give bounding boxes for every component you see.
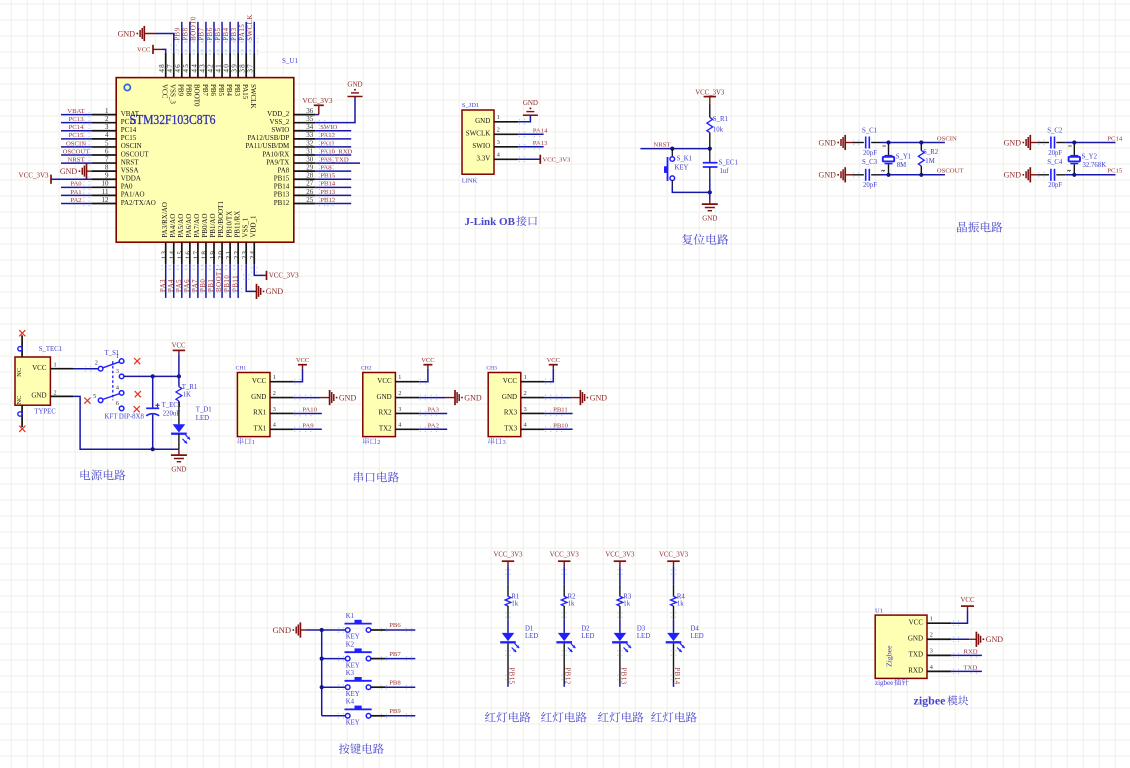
svg-text:VCC: VCC bbox=[547, 357, 560, 364]
svg-text:PC15: PC15 bbox=[1107, 168, 1123, 175]
svg-text:OSCIN: OSCIN bbox=[937, 135, 957, 142]
svg-text:TYPEC: TYPEC bbox=[34, 408, 56, 415]
svg-text:PB9: PB9 bbox=[389, 708, 401, 715]
svg-text:4: 4 bbox=[930, 664, 933, 671]
svg-text:PB15: PB15 bbox=[508, 667, 515, 685]
svg-text:16: 16 bbox=[185, 250, 193, 260]
svg-text:TXD: TXD bbox=[909, 651, 923, 659]
svg-text:PB2/BOOT1: PB2/BOOT1 bbox=[217, 201, 225, 238]
svg-text:1K: 1K bbox=[183, 392, 191, 399]
svg-text:PA0: PA0 bbox=[121, 183, 133, 191]
svg-text:PA10_RXD: PA10_RXD bbox=[320, 148, 352, 155]
svg-text:3: 3 bbox=[497, 139, 500, 146]
svg-text:4: 4 bbox=[497, 152, 500, 159]
svg-text:GND: GND bbox=[1004, 138, 1022, 147]
svg-text:PB13: PB13 bbox=[274, 191, 290, 199]
svg-text:PB11: PB11 bbox=[553, 406, 568, 413]
svg-text:1: 1 bbox=[273, 374, 276, 381]
svg-text:PB5: PB5 bbox=[217, 84, 225, 97]
svg-text:PB14: PB14 bbox=[320, 181, 336, 188]
svg-text:PC13: PC13 bbox=[69, 116, 85, 123]
svg-text:4: 4 bbox=[116, 385, 119, 392]
svg-text:GND: GND bbox=[31, 392, 46, 400]
svg-text:1k: 1k bbox=[511, 601, 518, 608]
svg-text:VCC: VCC bbox=[252, 377, 267, 385]
svg-text:VCC: VCC bbox=[503, 377, 518, 385]
svg-text:PA10: PA10 bbox=[302, 406, 317, 413]
svg-text:3: 3 bbox=[930, 648, 933, 655]
svg-text:LED: LED bbox=[196, 415, 209, 422]
svg-text:22: 22 bbox=[233, 250, 241, 260]
svg-text:KEY: KEY bbox=[346, 691, 360, 698]
svg-text:1k: 1k bbox=[677, 601, 684, 608]
svg-text:PB7: PB7 bbox=[389, 651, 401, 658]
svg-text:zigbee: zigbee bbox=[914, 694, 947, 708]
svg-text:GND: GND bbox=[171, 466, 186, 474]
svg-text:RX1: RX1 bbox=[253, 409, 267, 417]
svg-text:K3: K3 bbox=[346, 670, 355, 677]
svg-text:13: 13 bbox=[161, 250, 169, 260]
svg-text:PA4/AO: PA4/AO bbox=[169, 214, 177, 238]
svg-text:1: 1 bbox=[54, 362, 57, 369]
svg-text:GND: GND bbox=[251, 393, 266, 401]
svg-text:VCC_3V3: VCC_3V3 bbox=[269, 272, 299, 280]
svg-text:PC13: PC13 bbox=[121, 118, 137, 126]
svg-text:zigbee: zigbee bbox=[875, 679, 893, 687]
svg-text:KEY: KEY bbox=[346, 634, 360, 641]
svg-text:1: 1 bbox=[497, 114, 500, 121]
svg-text:2: 2 bbox=[54, 389, 57, 396]
svg-text:PA7: PA7 bbox=[192, 279, 199, 292]
svg-text:PA2: PA2 bbox=[70, 197, 81, 204]
svg-text:20: 20 bbox=[217, 250, 225, 260]
svg-text:GND: GND bbox=[502, 393, 517, 401]
svg-text:VCC_3V3: VCC_3V3 bbox=[605, 552, 635, 559]
svg-text:GND: GND bbox=[986, 635, 1004, 644]
svg-text:BOOT0: BOOT0 bbox=[193, 84, 201, 107]
svg-text:OSCOUT: OSCOUT bbox=[63, 148, 90, 155]
svg-text:220uF: 220uF bbox=[163, 411, 181, 418]
svg-text:SWCLK: SWCLK bbox=[249, 84, 257, 108]
svg-text:GND: GND bbox=[464, 393, 482, 402]
svg-text:PA8: PA8 bbox=[320, 165, 332, 172]
svg-text:NRST: NRST bbox=[67, 156, 84, 163]
svg-text:S_R1: S_R1 bbox=[713, 116, 728, 123]
svg-text:VCC: VCC bbox=[377, 377, 392, 385]
svg-text:VDDA: VDDA bbox=[121, 175, 141, 183]
svg-text:PA12/USB/DP: PA12/USB/DP bbox=[248, 134, 290, 142]
svg-text:SWIO: SWIO bbox=[472, 142, 490, 150]
svg-text:Zigbee: Zigbee bbox=[885, 645, 894, 667]
svg-text:VSSA: VSSA bbox=[121, 166, 139, 174]
svg-text:20pF: 20pF bbox=[1048, 182, 1062, 189]
svg-text:VCC_3V3: VCC_3V3 bbox=[550, 552, 580, 559]
svg-text:PB7: PB7 bbox=[201, 84, 209, 97]
svg-text:2: 2 bbox=[497, 127, 500, 134]
svg-text:VCC_3V3: VCC_3V3 bbox=[19, 172, 49, 180]
svg-text:PB13: PB13 bbox=[619, 667, 626, 685]
svg-text:J-Link OB: J-Link OB bbox=[465, 216, 516, 228]
svg-text:VCC: VCC bbox=[421, 357, 434, 364]
svg-text:GND: GND bbox=[819, 171, 837, 180]
svg-text:2: 2 bbox=[398, 390, 401, 397]
svg-text:RXD: RXD bbox=[964, 649, 978, 656]
svg-text:4: 4 bbox=[398, 422, 401, 429]
svg-text:PC14: PC14 bbox=[121, 126, 137, 134]
svg-text:2: 2 bbox=[930, 632, 933, 639]
svg-text:R2: R2 bbox=[568, 593, 577, 600]
svg-text:S_C2: S_C2 bbox=[1047, 127, 1063, 134]
svg-text:BOOT0: BOOT0 bbox=[191, 16, 198, 41]
svg-text:K4: K4 bbox=[346, 699, 355, 706]
svg-text:PC14: PC14 bbox=[1107, 135, 1123, 142]
svg-text:OSCOUT: OSCOUT bbox=[121, 150, 150, 158]
svg-text:VCC: VCC bbox=[296, 357, 309, 364]
svg-text:1: 1 bbox=[398, 374, 401, 381]
svg-text:4: 4 bbox=[273, 422, 276, 429]
svg-text:PA9/TX: PA9/TX bbox=[266, 158, 289, 166]
svg-text:LED: LED bbox=[691, 633, 704, 640]
svg-text:R4: R4 bbox=[677, 593, 686, 600]
svg-text:T_D1: T_D1 bbox=[196, 407, 212, 414]
svg-text:PA1: PA1 bbox=[70, 189, 81, 196]
svg-text:PA15: PA15 bbox=[241, 84, 249, 100]
svg-text:K2: K2 bbox=[346, 641, 355, 648]
svg-text:23: 23 bbox=[241, 250, 249, 260]
svg-text:PA1/AO: PA1/AO bbox=[121, 191, 145, 199]
svg-text:KEY: KEY bbox=[675, 165, 689, 172]
svg-text:VCC: VCC bbox=[161, 84, 169, 99]
svg-text:PA14: PA14 bbox=[533, 127, 548, 134]
svg-text:PB10: PB10 bbox=[553, 422, 569, 429]
svg-text:PA8: PA8 bbox=[277, 166, 289, 174]
svg-text:VCC_3V3: VCC_3V3 bbox=[303, 97, 333, 105]
svg-text:PA4: PA4 bbox=[168, 279, 175, 292]
svg-text:20pF: 20pF bbox=[863, 150, 877, 157]
svg-text:S_Y1: S_Y1 bbox=[896, 154, 912, 161]
svg-text:8M: 8M bbox=[897, 162, 906, 169]
svg-text:PA11: PA11 bbox=[320, 140, 334, 147]
svg-text:3: 3 bbox=[503, 439, 506, 446]
svg-text:VCC: VCC bbox=[172, 343, 186, 350]
svg-text:NC: NC bbox=[16, 395, 23, 404]
svg-text:T_R1: T_R1 bbox=[182, 384, 197, 391]
svg-text:RXD: RXD bbox=[908, 667, 923, 675]
svg-text:VSS_1: VSS_1 bbox=[241, 217, 249, 237]
svg-text:17: 17 bbox=[193, 250, 201, 260]
svg-text:PA3: PA3 bbox=[160, 279, 167, 292]
svg-text:SWIO: SWIO bbox=[271, 126, 289, 134]
svg-text:PB12: PB12 bbox=[274, 199, 290, 207]
svg-text:3: 3 bbox=[398, 406, 401, 413]
svg-text:PB3: PB3 bbox=[233, 84, 241, 97]
svg-text:2: 2 bbox=[524, 390, 527, 397]
svg-text:GND: GND bbox=[272, 625, 291, 635]
svg-text:PB1/AO: PB1/AO bbox=[209, 213, 217, 237]
svg-text:U1: U1 bbox=[875, 607, 883, 614]
svg-text:VDD_1: VDD_1 bbox=[249, 215, 257, 238]
svg-text:NRST: NRST bbox=[121, 158, 140, 166]
svg-text:PB11/RX: PB11/RX bbox=[233, 211, 241, 238]
svg-text:PC15: PC15 bbox=[121, 134, 137, 142]
svg-text:GND: GND bbox=[908, 635, 923, 643]
svg-text:1: 1 bbox=[930, 616, 933, 623]
svg-text:PA6: PA6 bbox=[184, 279, 191, 292]
svg-text:PB10/TX: PB10/TX bbox=[225, 211, 233, 238]
svg-text:CH1: CH1 bbox=[236, 365, 247, 371]
svg-text:VCC_3V3: VCC_3V3 bbox=[695, 89, 725, 96]
svg-text:S_K1: S_K1 bbox=[677, 156, 693, 163]
svg-text:TX2: TX2 bbox=[379, 425, 392, 433]
svg-text:BOOT1: BOOT1 bbox=[216, 267, 223, 292]
svg-text:PA6/AO: PA6/AO bbox=[185, 214, 193, 238]
svg-text:D1: D1 bbox=[525, 626, 533, 633]
svg-text:CH3: CH3 bbox=[486, 365, 497, 371]
svg-text:S_EC1: S_EC1 bbox=[719, 159, 738, 166]
svg-text:10k: 10k bbox=[713, 127, 724, 134]
svg-text:PA3: PA3 bbox=[428, 406, 440, 413]
svg-text:5: 5 bbox=[93, 393, 96, 400]
svg-text:GND: GND bbox=[702, 215, 717, 223]
svg-text:VCC: VCC bbox=[137, 47, 150, 54]
svg-text:PA12: PA12 bbox=[320, 132, 335, 139]
svg-text:1uf: 1uf bbox=[720, 168, 730, 175]
svg-text:24: 24 bbox=[249, 250, 257, 260]
svg-text:GND: GND bbox=[347, 81, 362, 89]
svg-text:RX2: RX2 bbox=[378, 409, 392, 417]
svg-text:PB9: PB9 bbox=[177, 84, 185, 97]
svg-text:15: 15 bbox=[177, 250, 185, 260]
svg-text:NRST: NRST bbox=[653, 141, 670, 148]
svg-text:TX3: TX3 bbox=[504, 425, 517, 433]
svg-text:GND: GND bbox=[523, 99, 538, 107]
svg-text:LED: LED bbox=[525, 633, 538, 640]
svg-text:PB13: PB13 bbox=[320, 189, 336, 196]
svg-text:PA5/AO: PA5/AO bbox=[177, 214, 185, 238]
svg-text:VBAT: VBAT bbox=[67, 108, 84, 115]
svg-text:PB14: PB14 bbox=[274, 183, 290, 191]
svg-text:PA7/AO: PA7/AO bbox=[193, 214, 201, 238]
svg-text:GND: GND bbox=[266, 287, 284, 296]
svg-text:STM32F103C8T6: STM32F103C8T6 bbox=[130, 112, 216, 127]
svg-text:S_TEC1: S_TEC1 bbox=[39, 346, 62, 353]
svg-text:PC15: PC15 bbox=[69, 132, 85, 139]
svg-text:2: 2 bbox=[95, 359, 98, 366]
svg-text:PA3/RX/AO: PA3/RX/AO bbox=[161, 202, 169, 238]
svg-text:KFT DIP-8X8: KFT DIP-8X8 bbox=[105, 413, 145, 420]
svg-text:PA2: PA2 bbox=[428, 422, 439, 429]
svg-text:3: 3 bbox=[116, 368, 119, 375]
svg-text:LED: LED bbox=[581, 633, 594, 640]
svg-text:PA0: PA0 bbox=[70, 181, 82, 188]
svg-text:TXD: TXD bbox=[964, 665, 978, 672]
svg-text:LED: LED bbox=[637, 633, 650, 640]
svg-text:SWCLK: SWCLK bbox=[247, 14, 254, 41]
svg-text:D4: D4 bbox=[691, 626, 700, 633]
svg-text:PB15: PB15 bbox=[320, 173, 336, 180]
svg-text:1M: 1M bbox=[925, 158, 934, 165]
svg-text:S_C3: S_C3 bbox=[862, 159, 878, 166]
svg-text:OSCIN: OSCIN bbox=[121, 142, 142, 150]
svg-text:PB12: PB12 bbox=[320, 197, 335, 204]
svg-text:PB8: PB8 bbox=[389, 679, 401, 686]
svg-text:VCC: VCC bbox=[32, 364, 47, 372]
svg-text:PA2/TX/AO: PA2/TX/AO bbox=[121, 199, 156, 207]
svg-text:GND: GND bbox=[1004, 171, 1022, 180]
svg-text:3: 3 bbox=[273, 406, 276, 413]
svg-text:SWCLK: SWCLK bbox=[466, 130, 491, 138]
svg-text:3: 3 bbox=[524, 406, 527, 413]
svg-text:KEY: KEY bbox=[346, 720, 360, 727]
svg-text:1k: 1k bbox=[623, 601, 630, 608]
svg-text:VBAT: VBAT bbox=[121, 110, 140, 118]
svg-text:VCC_3V3: VCC_3V3 bbox=[493, 552, 523, 559]
svg-text:3.3V: 3.3V bbox=[476, 155, 490, 163]
svg-text:GND: GND bbox=[339, 393, 357, 402]
svg-text:S_JD1: S_JD1 bbox=[462, 102, 479, 109]
svg-text:OSCOUT: OSCOUT bbox=[937, 168, 964, 175]
svg-text:S_R2: S_R2 bbox=[923, 149, 939, 156]
svg-text:S_C4: S_C4 bbox=[1047, 159, 1063, 166]
svg-text:1: 1 bbox=[524, 374, 527, 381]
svg-text:VCC: VCC bbox=[961, 597, 975, 604]
svg-text:PB4: PB4 bbox=[225, 84, 233, 97]
svg-text:VSS_3: VSS_3 bbox=[169, 84, 177, 104]
svg-text:K1: K1 bbox=[346, 613, 354, 620]
svg-text:PB11: PB11 bbox=[232, 275, 239, 292]
svg-text:VSS_2: VSS_2 bbox=[269, 118, 289, 126]
svg-text:OSCIN: OSCIN bbox=[66, 140, 86, 147]
svg-text:2: 2 bbox=[273, 390, 276, 397]
svg-text:19: 19 bbox=[209, 250, 217, 260]
svg-text:20pF: 20pF bbox=[1048, 150, 1062, 157]
svg-text:1: 1 bbox=[252, 439, 255, 446]
svg-text:GND: GND bbox=[377, 393, 392, 401]
svg-text:21: 21 bbox=[225, 250, 233, 260]
svg-text:VDD_2: VDD_2 bbox=[267, 110, 290, 118]
svg-text:LINK: LINK bbox=[462, 178, 478, 185]
svg-text:RX3: RX3 bbox=[504, 409, 518, 417]
svg-text:GND: GND bbox=[590, 393, 608, 402]
svg-text:32.768K: 32.768K bbox=[1083, 162, 1107, 169]
svg-text:D3: D3 bbox=[637, 626, 646, 633]
svg-text:CH2: CH2 bbox=[361, 365, 372, 371]
svg-text:1k: 1k bbox=[568, 601, 575, 608]
svg-text:KEY: KEY bbox=[346, 662, 360, 669]
svg-text:6: 6 bbox=[116, 400, 119, 407]
svg-text:PB6: PB6 bbox=[209, 84, 217, 97]
svg-text:PB10: PB10 bbox=[224, 275, 231, 292]
svg-text:18: 18 bbox=[201, 250, 209, 260]
svg-text:TX1: TX1 bbox=[253, 425, 266, 433]
svg-text:S_C1: S_C1 bbox=[862, 127, 877, 134]
svg-text:PC14: PC14 bbox=[69, 124, 85, 131]
svg-text:PB15: PB15 bbox=[274, 175, 290, 183]
svg-text:S_Y2: S_Y2 bbox=[1082, 154, 1098, 161]
svg-text:R1: R1 bbox=[511, 593, 519, 600]
svg-text:D2: D2 bbox=[581, 626, 590, 633]
svg-text:PB8: PB8 bbox=[185, 84, 193, 97]
svg-text:PB12: PB12 bbox=[564, 667, 571, 685]
svg-text:20pF: 20pF bbox=[863, 182, 877, 189]
svg-text:PA5: PA5 bbox=[176, 279, 183, 292]
svg-text:GND: GND bbox=[118, 29, 136, 38]
svg-text:VCC_3V3: VCC_3V3 bbox=[659, 552, 689, 559]
svg-text:GND: GND bbox=[475, 117, 490, 125]
svg-text:1: 1 bbox=[116, 353, 119, 360]
svg-text:14: 14 bbox=[169, 250, 177, 260]
svg-text:PA9_TXD: PA9_TXD bbox=[320, 156, 349, 163]
svg-text:NC: NC bbox=[16, 368, 23, 377]
svg-text:PA10/RX: PA10/RX bbox=[262, 150, 289, 158]
svg-text:VCC: VCC bbox=[909, 619, 924, 627]
svg-text:GND: GND bbox=[819, 138, 837, 147]
svg-text:SWIO: SWIO bbox=[320, 124, 337, 131]
svg-text:PA11/USB/DM: PA11/USB/DM bbox=[245, 142, 290, 150]
svg-text:PB6: PB6 bbox=[389, 622, 401, 629]
svg-text:VCC_3V3: VCC_3V3 bbox=[543, 157, 571, 164]
svg-text:PA13: PA13 bbox=[533, 140, 548, 147]
svg-text:PB0: PB0 bbox=[200, 279, 207, 292]
svg-text:PB14: PB14 bbox=[673, 667, 680, 685]
svg-text:PA9: PA9 bbox=[302, 422, 314, 429]
svg-text:GND: GND bbox=[60, 167, 78, 176]
svg-text:PB0/AO: PB0/AO bbox=[201, 213, 209, 237]
svg-text:4: 4 bbox=[524, 422, 527, 429]
svg-text:2: 2 bbox=[377, 439, 380, 446]
svg-text:PB1: PB1 bbox=[208, 279, 215, 292]
svg-text:S_U1: S_U1 bbox=[282, 57, 298, 65]
svg-text:R3: R3 bbox=[623, 593, 632, 600]
